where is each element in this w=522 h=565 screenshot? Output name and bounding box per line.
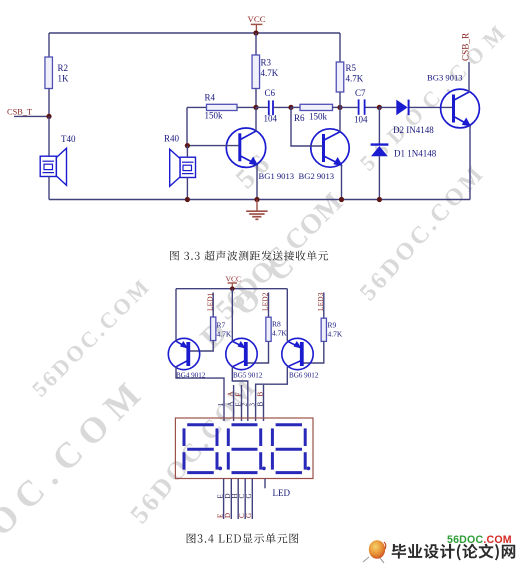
svg-text:LED: LED	[273, 488, 291, 498]
junction VCC rail	[253, 30, 258, 35]
wire BG5 emitter	[231, 289, 233, 342]
svg-text:R3: R3	[261, 58, 272, 68]
svg-text:BG6 9012: BG6 9012	[289, 371, 319, 379]
wire BG3 collector	[468, 62, 470, 92]
transistor BG5 9012	[226, 338, 263, 379]
wire	[186, 178, 188, 200]
diode D2 1N4148	[393, 100, 434, 135]
power VCC (LED circuit)	[226, 275, 242, 289]
svg-text:BG2 9013: BG2 9013	[299, 171, 335, 181]
transistor BG3 9013	[427, 73, 479, 128]
wire	[186, 107, 188, 145]
svg-text:R5: R5	[346, 63, 357, 73]
wire	[410, 106, 453, 108]
wire	[48, 116, 50, 156]
svg-text:4.7K: 4.7K	[272, 329, 287, 338]
LED display module	[175, 418, 313, 479]
svg-text:3: 3	[248, 403, 256, 407]
wire	[48, 89, 50, 117]
wire	[255, 33, 257, 55]
wire	[340, 106, 358, 108]
wire	[378, 107, 380, 143]
wire	[274, 106, 291, 108]
junction node C6/R6	[288, 105, 293, 110]
wire BG6 emitter	[286, 289, 288, 342]
wire	[186, 146, 188, 158]
wire	[366, 106, 380, 108]
resistor R8	[266, 317, 288, 341]
wire BG1 base	[187, 145, 239, 147]
wire pin B stub	[263, 385, 265, 421]
ground	[246, 200, 267, 220]
svg-text:4.7K: 4.7K	[261, 68, 279, 78]
wire LED3	[323, 293, 325, 319]
capacitor C7	[354, 88, 368, 125]
wire	[339, 92, 341, 107]
resistor R7	[211, 317, 232, 341]
wire display bottom pin 4	[244, 479, 246, 520]
wire	[378, 156, 380, 199]
junction R40 rail	[185, 197, 190, 202]
wire BG2 collector	[339, 107, 341, 131]
svg-text:D2 IN4148: D2 IN4148	[393, 125, 434, 135]
resistor R3	[252, 55, 279, 89]
wire	[339, 33, 341, 62]
junction node R5/R6/C7	[337, 105, 342, 110]
svg-text:F: F	[234, 393, 242, 397]
svg-text:G: G	[245, 493, 253, 498]
resistor R5	[336, 62, 364, 92]
wire	[48, 33, 50, 57]
svg-text:BG3 9013: BG3 9013	[427, 73, 463, 83]
resistor R6	[300, 104, 333, 110]
wire BG3 emitter	[469, 126, 471, 200]
wire VCC rail 2	[176, 288, 287, 290]
svg-text:104: 104	[354, 115, 368, 125]
svg-text:A: A	[226, 401, 234, 406]
wire CSB_T stub	[14, 115, 49, 117]
svg-text:4.7K: 4.7K	[217, 330, 232, 339]
svg-text:R8: R8	[272, 320, 281, 329]
junction R40/base node	[185, 143, 190, 148]
svg-text:1: 1	[217, 403, 225, 407]
transistor BG6 9012	[282, 338, 319, 379]
wire BG4 emitter	[175, 289, 177, 342]
wire	[187, 106, 207, 108]
caption fig 3.4	[187, 533, 299, 543]
7-segment digit 1	[184, 425, 222, 473]
junction BG2 emitter rail	[339, 197, 344, 202]
svg-text:B: B	[256, 402, 264, 407]
wire R9 to BG6 base	[304, 341, 324, 363]
transistor BG2 9013	[299, 129, 350, 181]
svg-text:BG5 9012: BG5 9012	[233, 371, 263, 379]
junction node R3/R4/C6	[253, 105, 258, 110]
transducer T40	[40, 134, 76, 185]
wire	[291, 106, 300, 108]
wire bottom rail	[49, 199, 470, 201]
wire display bottom pin 5	[251, 479, 253, 520]
svg-text:VCC: VCC	[248, 14, 266, 24]
svg-text:R9: R9	[328, 321, 337, 330]
svg-text:C7: C7	[355, 88, 366, 98]
wire	[237, 106, 256, 108]
wire	[255, 89, 257, 108]
wire	[48, 177, 50, 200]
resistor R4	[207, 104, 238, 110]
svg-text:C6: C6	[265, 88, 276, 98]
wire BG1 collector	[255, 107, 257, 131]
junction node CSB_T	[46, 114, 51, 119]
svg-text:4.7K: 4.7K	[328, 330, 343, 339]
7-segment digit 3	[272, 425, 310, 473]
svg-text:G: G	[245, 513, 253, 518]
svg-text:4.7K: 4.7K	[346, 74, 364, 84]
svg-text:B: B	[256, 392, 264, 397]
7-segment digit 2	[228, 425, 265, 473]
wire BG2 base	[291, 107, 323, 146]
svg-text:R6: R6	[294, 113, 305, 123]
svg-text:104: 104	[264, 114, 278, 124]
svg-text:VCC: VCC	[226, 275, 242, 284]
junction VCC rail 2	[230, 286, 235, 291]
wire display bottom pin 2	[230, 479, 232, 520]
transistor BG1 9013	[226, 128, 294, 181]
wire LED1	[212, 293, 214, 318]
resistor R2	[45, 57, 69, 89]
svg-text:2: 2	[241, 403, 249, 407]
svg-text:56DOC.COM: 56DOC.COM	[447, 534, 512, 546]
junction node C7/D2/D1	[377, 105, 382, 110]
wire pin F stub	[241, 385, 243, 421]
svg-text:CSB_R: CSB_R	[460, 32, 470, 61]
svg-text:R40: R40	[164, 134, 180, 144]
wire display bottom pin 6	[264, 479, 266, 489]
wire top rail	[49, 32, 340, 34]
zener diode D1 1N4148	[371, 145, 437, 159]
junction D1 ground rail	[377, 197, 382, 202]
wire R8 to BG5 base	[248, 341, 269, 363]
caption fig 3.3	[170, 251, 328, 261]
wire BG2 emitter	[341, 165, 343, 200]
svg-text:BG1 9013: BG1 9013	[259, 171, 295, 181]
resistor R9	[321, 318, 343, 341]
wire	[333, 106, 341, 108]
capacitor C6	[264, 88, 278, 124]
wire display bottom pin 1	[223, 479, 225, 520]
logo text 毕业设计(论文)网	[392, 544, 516, 561]
svg-text:R4: R4	[205, 93, 216, 103]
wire LED2	[268, 293, 270, 318]
svg-text:R7: R7	[217, 321, 226, 330]
svg-text:R2: R2	[58, 63, 69, 73]
wire BG1 emitter	[256, 165, 258, 200]
wire pin A stub	[233, 385, 235, 421]
svg-text:150k: 150k	[205, 111, 224, 121]
junction ground rail	[254, 197, 259, 202]
svg-text:T40: T40	[61, 134, 76, 144]
wire display bottom pin 3	[237, 479, 239, 520]
power VCC (top)	[248, 14, 266, 33]
svg-text:150k: 150k	[309, 112, 328, 122]
wire	[256, 106, 268, 108]
svg-text:D1 1N4148: D1 1N4148	[394, 149, 437, 159]
svg-text:1K: 1K	[58, 74, 70, 84]
wire	[379, 106, 396, 108]
wire BG5 collector to pin 2	[232, 367, 248, 421]
wire R7 to BG4 base	[189, 341, 213, 352]
svg-text:CSB_T: CSB_T	[7, 108, 32, 117]
transducer R40	[164, 134, 196, 187]
svg-text:D: D	[224, 513, 232, 518]
svg-text:A: A	[226, 391, 234, 396]
transistor BG4 9012	[168, 338, 206, 379]
wire BG4 collector to pin 1	[176, 367, 224, 421]
wire BG6 collector to pin 3	[256, 367, 288, 421]
